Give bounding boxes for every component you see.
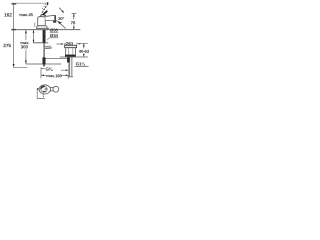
aerator	[53, 21, 56, 23]
top view spout lower line	[50, 90, 53, 92]
ext vline max180 left	[40, 67, 42, 78]
underline dia34	[50, 37, 59, 39]
arrowhead up max300	[25, 30, 27, 33]
svg-text:Ø50: Ø50	[50, 28, 59, 33]
top view lever dark arc	[41, 86, 45, 88]
dia63 arrow left	[57, 43, 63, 45]
ext line 40-63 top	[80, 42, 88, 44]
svg-text:G⅜: G⅜	[45, 67, 52, 72]
top view dash 1	[42, 94, 44, 96]
deck line	[11, 29, 80, 31]
spray arrow diagonal	[59, 8, 62, 12]
hose line to detail	[45, 58, 67, 60]
svg-text:76: 76	[71, 20, 76, 25]
top view spout upper line	[50, 86, 53, 88]
max180 arrow left	[41, 74, 46, 76]
dia63 ext tick right	[76, 43, 78, 46]
nut bottom dark	[65, 55, 76, 57]
pop-up rod	[34, 23, 36, 27]
hose	[43, 43, 45, 57]
lever base cap	[40, 15, 46, 17]
top view leader line	[37, 89, 45, 99]
dia63 ext tick left	[63, 43, 65, 46]
top view dash 2	[42, 96, 44, 97]
svg-text:max.45: max.45	[19, 12, 33, 17]
arrowhead up 76	[73, 14, 75, 17]
floor line 275	[13, 67, 27, 69]
dim 40-63 lower	[83, 53, 85, 57]
dim max300 vertical upper	[25, 30, 27, 40]
G3/8 leader arrow line	[61, 69, 68, 71]
dim 115 vertical	[33, 30, 35, 42]
svg-text:115: 115	[45, 45, 52, 50]
top view small dark mark	[43, 90, 46, 92]
lever handle solid	[42, 11, 47, 15]
arrow bottom of 275	[13, 64, 15, 68]
svg-text:40-63: 40-63	[79, 49, 90, 54]
top view inner circle	[41, 86, 47, 92]
svg-text:162: 162	[4, 12, 12, 18]
dim 76 upper	[73, 13, 75, 19]
spout tip edge	[54, 15, 56, 21]
arrowhead up 40-63	[83, 44, 85, 47]
lever raised dashed outline	[42, 4, 48, 13]
dim 76 lower	[73, 25, 75, 30]
svg-text:20°: 20°	[58, 16, 64, 21]
dia63 arrowhead left	[61, 43, 64, 45]
shank	[43, 30, 46, 43]
hose nut under detail	[67, 57, 70, 62]
leader dia34	[47, 38, 50, 40]
hose connector nipple	[43, 64, 45, 66]
G3/8 arrowhead right	[66, 69, 69, 71]
svg-text:300: 300	[21, 44, 29, 49]
dimension line left vertical	[13, 3, 15, 65]
leader dia50	[46, 28, 49, 30]
spray lower arrowhead	[58, 21, 61, 24]
max180 arrow right	[61, 74, 69, 76]
spray line lower	[58, 22, 65, 29]
svg-text:275: 275	[3, 43, 11, 49]
arrowhead up 115	[33, 30, 35, 33]
dia63 arrowhead right	[77, 43, 80, 45]
nut facet right	[72, 48, 74, 55]
background	[0, 0, 100, 100]
arrowhead down 115	[33, 40, 35, 43]
spout	[45, 15, 55, 20]
spray arc	[56, 20, 62, 22]
svg-text:G1¼: G1¼	[76, 61, 86, 66]
top view spout tip	[53, 86, 59, 92]
faucet body	[38, 17, 46, 26]
nut	[66, 48, 76, 55]
spray arrowhead	[62, 10, 64, 13]
deck line right detail	[60, 56, 88, 58]
top extension line	[12, 2, 48, 4]
lever raised dashed inner	[42, 4, 46, 9]
nut facet left	[67, 48, 69, 55]
top view leader arrowhead	[37, 88, 40, 90]
svg-text:Ø34: Ø34	[50, 33, 59, 38]
dim 40-63 upper	[83, 43, 85, 48]
shank end line	[33, 42, 48, 44]
arrowhead down 40-63	[83, 54, 85, 57]
max180 arrowhead right	[66, 75, 69, 77]
shank lower left line	[69, 57, 71, 77]
top view body oval	[39, 85, 50, 94]
top view center dash	[45, 88, 47, 90]
underline dia50	[50, 31, 59, 33]
leader G1 1/4	[74, 66, 88, 68]
shank lower right line	[71, 57, 73, 77]
base flange inner line	[37, 26, 47, 28]
svg-text:max.180: max.180	[46, 73, 62, 78]
tick at deck level	[12, 29, 16, 30]
dim max300 vertical lower	[25, 49, 27, 63]
ext vline right of shank	[68, 63, 70, 79]
base flange	[37, 25, 48, 28]
shank bottom tick	[68, 76, 73, 78]
ext line 76 top	[72, 12, 77, 14]
max180 arrowhead left	[41, 74, 44, 76]
dia63 arrow right	[77, 43, 80, 45]
hose connector	[42, 57, 45, 64]
hose end line	[26, 63, 61, 65]
arrowhead down 76	[73, 27, 75, 30]
junction tick lever top	[47, 2, 48, 4]
arrowhead down max300	[25, 60, 27, 63]
G3/8 leader dash	[41, 68, 45, 70]
tick top of 162	[12, 3, 17, 4]
washer	[65, 45, 77, 47]
